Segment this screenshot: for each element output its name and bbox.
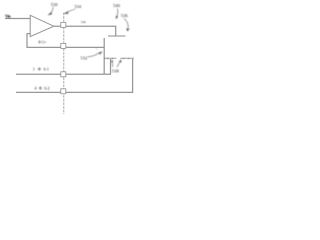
leader 532 — [88, 53, 99, 57]
leader 534 — [67, 9, 76, 12]
leader 540 — [116, 9, 119, 17]
switch box S2 — [61, 43, 66, 48]
svg-text:4 Φ b2: 4 Φ b2 — [35, 86, 51, 91]
switch box S4 — [61, 89, 66, 94]
wire phi1 line A — [16, 73, 111, 75]
leader 540 — [116, 9, 119, 17]
leader 532 — [88, 53, 99, 57]
wire inverting input stub — [27, 33, 31, 35]
leader 538 right — [117, 63, 120, 68]
wire feedback vertical left — [26, 34, 28, 48]
svg-text:538: 538 — [112, 69, 120, 74]
leader 536 — [124, 18, 128, 27]
svg-text:534: 534 — [75, 4, 83, 9]
leader 530 — [51, 7, 54, 13]
wire output corner down to sense plate — [115, 26, 117, 36]
switch box S3 — [61, 72, 66, 77]
wire mid vertical — [103, 38, 105, 74]
svg-text:532: 532 — [81, 56, 89, 61]
leader 538 left — [111, 62, 114, 67]
wire op-amp output — [54, 25, 116, 27]
svg-text:548: 548 — [81, 20, 86, 24]
svg-text:1 Φ b1: 1 Φ b1 — [33, 67, 50, 72]
svg-text:536: 536 — [121, 13, 129, 18]
leader 534 — [67, 9, 76, 12]
wire phi2 line B — [16, 91, 133, 93]
wire feedback horizontal — [27, 46, 105, 48]
leader 538 left — [112, 62, 115, 67]
dashed signal line through switches — [63, 13, 65, 115]
wire riser to electrode bar2 — [132, 59, 134, 92]
electrode bar2 (hatched) — [121, 57, 134, 59]
switch box S1 — [61, 22, 66, 27]
leader 536 — [124, 19, 128, 28]
op-amp U530 — [30, 15, 54, 36]
svg-text:C: C — [96, 48, 98, 51]
svg-text:540: 540 — [113, 3, 121, 8]
svg-text:530: 530 — [51, 2, 59, 7]
wire Vin input — [5, 18, 30, 20]
svg-text:Φ Gᵐ: Φ Gᵐ — [39, 41, 47, 45]
electrode bar1 (hatched) — [105, 57, 117, 59]
node sense electrode plate — [108, 35, 126, 37]
leader 538 right — [117, 62, 120, 67]
leader 530 — [51, 7, 54, 13]
wire riser to electrode bar1 — [110, 59, 112, 74]
